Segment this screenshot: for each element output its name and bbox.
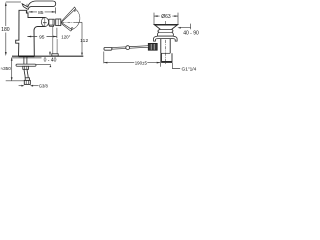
mounting washer [16,64,36,66]
dimension D63 line [154,15,178,17]
deck line [12,55,83,57]
svg-text:G1"1/4: G1"1/4 [182,67,197,73]
handle lever left view [22,1,56,9]
drain seat flange [154,36,178,41]
handle down position wedge [61,22,72,31]
dimension 112 line [81,22,83,54]
dimension D63 extension lines [154,13,178,25]
svg-text:120°: 120° [61,35,70,40]
dimension 95 line [27,36,56,38]
drain tailpiece [162,53,173,62]
mounting nut [23,66,29,69]
svg-text:95: 95 [39,35,45,41]
svg-text:180: 180 [1,27,10,33]
dimension 95 extension line [56,28,58,39]
dimension 0-40 lower arrow [50,65,52,67]
aerator tip [49,19,54,25]
faucet body left view [16,10,45,56]
faucet base bottom edge [19,55,35,57]
handle axis line [62,21,76,23]
rod ball joint [126,46,130,50]
dimension 85 extension line [55,7,57,13]
rod gland nut [148,43,157,50]
dimension 0-40 top arrow [49,51,51,54]
dimension 180 arrows [5,2,7,56]
centerline faucet left view [26,4,28,58]
dimension 85 arrows [29,11,56,13]
hose end fitting [25,78,29,81]
svg-text:40 - 90: 40 - 90 [183,30,199,36]
dimension 180 line [6,2,21,54]
drain plug cap [154,25,178,30]
dimension 190 extension lines [103,52,105,64]
rod end ferrule [104,48,112,51]
drain body tube [161,39,170,54]
drain centerline [165,21,167,65]
dimension G3/8 arrows [19,85,23,87]
mounting shank [24,57,27,64]
svg-text:G3/8: G3/8 [39,83,49,88]
drain collar [157,29,173,36]
dimension 190 line [104,62,161,64]
dimension 0-40 lower line [36,64,51,66]
dimension D63 arrows [154,15,178,17]
handle travel arc [71,10,79,30]
svg-text:112: 112 [80,38,88,44]
svg-text:0 - 40: 0 - 40 [44,57,57,63]
svg-text:190±5: 190±5 [135,60,148,65]
pop-up rod [112,46,148,50]
deck underside line [12,57,42,59]
dimension 40-90 leader [181,24,191,30]
arc arrows [71,9,76,30]
label G1 1/4 leader [172,63,180,69]
spout end cap [41,18,48,27]
svg-text:≈350: ≈350 [1,66,12,71]
dimension 85 line [29,11,56,13]
dimension 190 arrows [104,62,161,64]
middle view base [52,54,58,56]
dimension 40-90 arrow [177,27,180,29]
dimension 350 line [11,58,13,81]
svg-text:85: 85 [38,10,44,16]
svg-text:Ø63: Ø63 [161,14,171,20]
handle up position wedge [61,7,76,23]
middle view body column [53,26,57,56]
dimension 350 extension line [6,80,24,82]
dimension 95 arrows [27,36,56,38]
flexible hoses [24,69,28,78]
middle view handle knob [56,19,61,26]
